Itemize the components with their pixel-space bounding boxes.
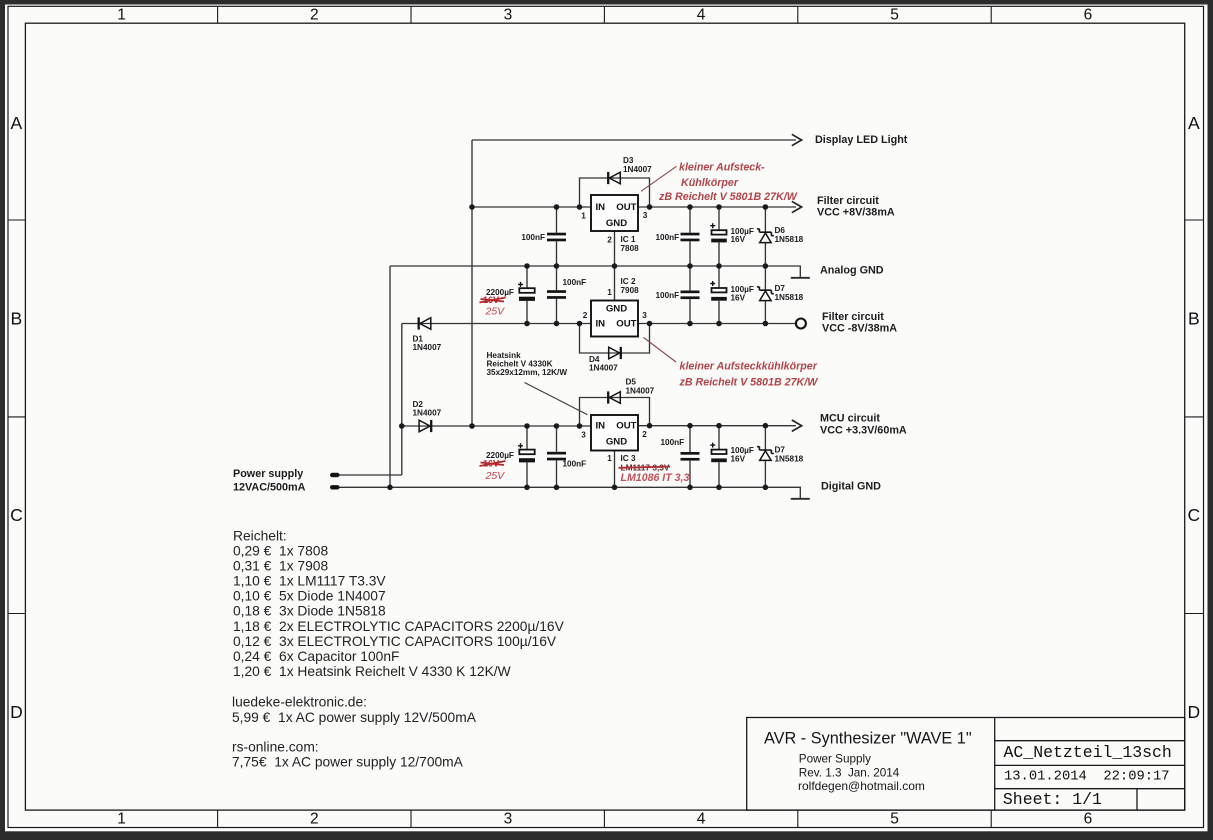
- svg-text:Analog GND: Analog GND: [820, 265, 884, 277]
- svg-text:AVR - Synthesizer "WAVE 1": AVR - Synthesizer "WAVE 1": [764, 730, 972, 748]
- title block frame: [747, 718, 1185, 811]
- svg-text:3: 3: [581, 431, 586, 440]
- svg-text:AC_Netzteil_13sch: AC_Netzteil_13sch: [1004, 743, 1172, 762]
- wire: IC1 IN: [472, 206, 591, 208]
- svg-text:VCC +3.3V/60mA: VCC +3.3V/60mA: [820, 424, 907, 436]
- diode D2 1N4007: [419, 420, 431, 432]
- svg-text:13.01.2014 22:09:17: 13.01.2014 22:09:17: [1004, 770, 1170, 785]
- schottky diode D7 1N5818 (row3): [757, 447, 774, 461]
- svg-text:3: 3: [642, 311, 647, 320]
- svg-text:1: 1: [581, 212, 586, 221]
- diode D5 1N4007: [608, 391, 620, 403]
- svg-text:1,10 € 1x LM1117 T3.3V: 1,10 € 1x LM1117 T3.3V: [233, 574, 386, 589]
- svg-text:D5: D5: [626, 378, 637, 387]
- svg-text:100nF: 100nF: [656, 291, 680, 300]
- regulator IC3 box: [591, 415, 638, 451]
- red note: IC2 heatsink: [679, 361, 819, 389]
- svg-text:0,12 € 3x ELECTROLYTIC CAPACI: 0,12 € 3x ELECTROLYTIC CAPACITORS 100µ/1…: [233, 634, 557, 649]
- arrow: +3.3V output: [792, 420, 802, 431]
- svg-text:GND: GND: [606, 303, 627, 314]
- svg-text:2: 2: [607, 236, 612, 245]
- svg-text:3: 3: [504, 810, 513, 827]
- svg-text:1N4007: 1N4007: [413, 409, 442, 418]
- AC input terminal lower: [330, 485, 340, 489]
- svg-text:3: 3: [643, 211, 648, 220]
- svg-text:16V: 16V: [731, 293, 746, 302]
- svg-text:0,18 € 3x Diode 1N5818: 0,18 € 3x Diode 1N5818: [233, 604, 386, 619]
- wire: ground left vertical: [389, 266, 391, 487]
- wire: digital ground bus: [339, 487, 800, 499]
- capacitor C3 100uF electrolytic: [710, 223, 727, 242]
- svg-text:2: 2: [310, 810, 319, 827]
- wire: D7 row2 stubs: [764, 266, 766, 324]
- capacitor C11 100uF electrolytic: [710, 443, 727, 463]
- wire: C7 100uF stubs: [718, 266, 720, 324]
- svg-text:1N5818: 1N5818: [775, 454, 804, 463]
- old voltage 16V struck (red) row3: [480, 458, 506, 468]
- svg-text:D: D: [1187, 702, 1200, 722]
- wire: D3 bypass loop: [580, 178, 650, 207]
- wire: IC3 OUT rail (+3.3V): [638, 425, 796, 427]
- svg-text:OUT: OUT: [616, 421, 636, 432]
- wire: display LED feed (top rail): [472, 139, 796, 141]
- svg-text:1N5818: 1N5818: [775, 235, 804, 244]
- wire: C3 100uF stubs: [718, 207, 720, 266]
- diode D3 1N4007: [608, 172, 620, 184]
- wire: D5 bypass loop: [580, 398, 650, 427]
- arrow: +8V output: [792, 201, 802, 212]
- svg-text:16V: 16V: [731, 235, 746, 244]
- svg-text:35x29x12mm, 12K/W: 35x29x12mm, 12K/W: [487, 368, 568, 377]
- svg-text:Power supply: Power supply: [233, 468, 303, 480]
- wire: IC1 pin2 to ground: [614, 231, 616, 266]
- svg-text:0,31 € 1x 7908: 0,31 € 1x 7908: [233, 559, 328, 574]
- wire: IC3 pin1 to ground: [614, 451, 616, 488]
- wire: IC1 OUT rail (+8V): [638, 206, 796, 208]
- schottky diode D7 1N5818 (row2): [757, 287, 774, 301]
- svg-text:IN: IN: [596, 318, 606, 329]
- parts list: rs-online: [232, 740, 464, 770]
- svg-text:VCC +8V/38mA: VCC +8V/38mA: [817, 207, 895, 219]
- svg-text:2: 2: [310, 6, 319, 23]
- svg-text:D: D: [10, 702, 23, 722]
- svg-text:GND: GND: [606, 218, 627, 229]
- svg-text:Rev. 1.3 Jan. 2014: Rev. 1.3 Jan. 2014: [799, 767, 900, 780]
- svg-text:100nF: 100nF: [563, 460, 587, 469]
- svg-text:rolfdegen@hotmail.com: rolfdegen@hotmail.com: [798, 779, 925, 793]
- svg-text:1: 1: [117, 810, 126, 827]
- svg-text:IC 2: IC 2: [621, 277, 636, 286]
- op-amp/regulator IC1 7808 box: [591, 195, 638, 231]
- svg-text:1,18 € 2x ELECTROLYTIC CAPACI: 1,18 € 2x ELECTROLYTIC CAPACITORS 2200µ/…: [233, 619, 565, 634]
- svg-text:OUT: OUT: [616, 202, 636, 213]
- svg-text:GND: GND: [606, 436, 627, 447]
- svg-text:C: C: [1187, 505, 1200, 525]
- svg-text:OUT: OUT: [616, 318, 636, 329]
- svg-text:5,99 € 1x AC power supply 12V: 5,99 € 1x AC power supply 12V/500mA: [232, 710, 477, 725]
- ground symbol: Digital GND: [791, 498, 810, 500]
- capacitor C7 100uF electrolytic: [710, 281, 727, 301]
- heatsink callout line: [525, 383, 588, 415]
- svg-text:D7: D7: [775, 284, 786, 293]
- red note: IC1 heatsink: [658, 162, 798, 203]
- svg-text:Reichelt:: Reichelt:: [233, 529, 287, 544]
- capacitor C8 2200uF electrolytic: [518, 443, 535, 462]
- svg-text:B: B: [1188, 309, 1200, 329]
- wire: D2 input wire to IC3 IN: [402, 425, 591, 427]
- svg-text:Filter circuit: Filter circuit: [822, 311, 884, 323]
- wire: C2 100nF stubs: [689, 207, 691, 266]
- wire: C6 100nF stubs: [689, 266, 691, 324]
- old voltage 16V struck (red): [480, 295, 506, 305]
- svg-text:1N4007: 1N4007: [413, 343, 442, 352]
- ground symbol: Analog GND: [791, 277, 810, 279]
- svg-text:Filter circuit: Filter circuit: [817, 195, 879, 207]
- wire: D7 row3 stubs: [764, 426, 766, 488]
- wire: IC2 pin1 to ground: [614, 266, 616, 301]
- svg-text:6: 6: [1084, 6, 1093, 23]
- wire: C11 100uF stubs: [718, 426, 720, 488]
- terminal circle: -8V output: [796, 319, 806, 329]
- svg-text:1N5818: 1N5818: [775, 293, 804, 302]
- junction dots: [387, 204, 768, 490]
- svg-text:B: B: [11, 309, 23, 329]
- svg-text:IC 1: IC 1: [621, 235, 636, 244]
- svg-text:zB Reichelt V 5801B 27K/W: zB Reichelt V 5801B 27K/W: [658, 191, 798, 203]
- svg-text:IN: IN: [596, 202, 606, 213]
- svg-text:2: 2: [642, 430, 647, 439]
- svg-text:0,10 € 5x Diode 1N4007: 0,10 € 5x Diode 1N4007: [233, 589, 386, 604]
- svg-text:25V: 25V: [485, 306, 506, 318]
- svg-text:luedeke-elektronic.de:: luedeke-elektronic.de:: [232, 695, 367, 710]
- svg-text:D7: D7: [775, 446, 786, 455]
- svg-text:zB Reichelt V 5801B 27K/W: zB Reichelt V 5801B 27K/W: [679, 377, 819, 389]
- svg-text:1N4007: 1N4007: [626, 387, 655, 396]
- wire: C5 100nF stubs: [556, 266, 558, 324]
- svg-text:25V: 25V: [485, 470, 506, 482]
- svg-text:0,24 € 6x Capacitor 100nF: 0,24 € 6x Capacitor 100nF: [233, 649, 399, 664]
- svg-text:Sheet: 1/1: Sheet: 1/1: [1003, 790, 1102, 809]
- wire: IC2 OUT rail (-8V): [638, 323, 796, 325]
- svg-text:12VAC/500mA: 12VAC/500mA: [233, 482, 306, 494]
- wire: AC feed vertical: [401, 324, 403, 476]
- svg-text:3: 3: [504, 6, 513, 23]
- svg-text:5: 5: [890, 810, 899, 827]
- svg-text:100nF: 100nF: [563, 278, 587, 287]
- svg-text:100nF: 100nF: [656, 233, 680, 242]
- svg-text:1N4007: 1N4007: [623, 165, 652, 174]
- svg-text:6: 6: [1084, 810, 1093, 827]
- diode D1 1N4007: [419, 317, 431, 329]
- svg-text:1N4007: 1N4007: [589, 364, 618, 373]
- svg-text:100nF: 100nF: [521, 233, 545, 242]
- svg-text:A: A: [11, 113, 23, 133]
- wire: analog ground bus: [390, 266, 800, 278]
- svg-text:100nF: 100nF: [661, 438, 685, 447]
- wire: C10 100nF stubs: [689, 426, 691, 488]
- IC3 old value struck through (red): [619, 462, 671, 472]
- wire: AC input upper: [339, 474, 402, 476]
- svg-text:Display LED Light: Display LED Light: [815, 134, 908, 146]
- diode D4 1N4007: [609, 347, 621, 359]
- capacitor C6 100nF: [681, 291, 700, 300]
- wire: D1 input wire to IC2 IN: [402, 323, 591, 325]
- svg-text:rs-online.com:: rs-online.com:: [232, 740, 319, 755]
- svg-text:kleiner Aufsteck-: kleiner Aufsteck-: [679, 162, 765, 174]
- svg-text:1: 1: [607, 454, 612, 463]
- regulator IC2 7908 box: [591, 301, 638, 337]
- svg-text:Power Supply: Power Supply: [799, 753, 871, 766]
- capacitor C4 2200uF electrolytic: [518, 282, 535, 301]
- parts list: luedeke: [232, 695, 477, 726]
- capacitor C5 100nF: [547, 290, 566, 299]
- svg-text:A: A: [1188, 113, 1200, 133]
- svg-text:LM1086 IT 3,3: LM1086 IT 3,3: [621, 472, 690, 484]
- wire: D4 bypass loop: [580, 324, 650, 354]
- AC input terminal upper: [330, 473, 340, 477]
- capacitor C2 100nF: [681, 233, 700, 242]
- svg-text:C: C: [10, 505, 23, 525]
- capacitor C10 100nF: [681, 452, 700, 461]
- svg-text:D6: D6: [775, 226, 786, 235]
- svg-text:kleiner Aufsteckkühlkörper: kleiner Aufsteckkühlkörper: [680, 361, 818, 373]
- svg-text:MCU circuit: MCU circuit: [820, 413, 880, 425]
- wire: C4 2200uF stubs: [526, 266, 528, 324]
- svg-text:4: 4: [697, 810, 706, 827]
- svg-text:2: 2: [583, 311, 588, 320]
- svg-text:4: 4: [697, 6, 706, 23]
- svg-text:VCC -8V/38mA: VCC -8V/38mA: [822, 323, 897, 335]
- svg-text:1: 1: [117, 6, 126, 23]
- svg-text:7,75€ 1x AC power supply 12/7: 7,75€ 1x AC power supply 12/700mA: [232, 755, 464, 770]
- svg-text:Digital GND: Digital GND: [821, 481, 881, 493]
- wire: D6 stubs: [764, 207, 766, 266]
- parts list: Reichelt: [233, 529, 565, 680]
- svg-text:1,20 € 1x Heatsink Reichelt V: 1,20 € 1x Heatsink Reichelt V 4330 K 12K…: [233, 664, 511, 679]
- wire: C1 100nF stubs: [556, 207, 558, 266]
- svg-text:1: 1: [607, 288, 612, 297]
- annotation pointer line (IC2 heatsink note): [644, 338, 677, 363]
- svg-text:5: 5: [890, 6, 899, 23]
- svg-text:0,29 € 1x 7808: 0,29 € 1x 7808: [233, 544, 328, 559]
- wire: C9 100nF stubs: [556, 426, 558, 487]
- arrow: Display LED Light: [792, 134, 802, 145]
- svg-text:7808: 7808: [621, 244, 640, 253]
- capacitor C9 100nF: [547, 452, 566, 461]
- svg-text:Heatsink: Heatsink: [487, 351, 522, 360]
- annotation pointer line (IC1 heatsink note): [641, 166, 677, 191]
- svg-text:Kühlkörper: Kühlkörper: [681, 177, 739, 189]
- wire: C8 2200uF stubs: [526, 426, 528, 487]
- svg-text:16V: 16V: [731, 455, 746, 464]
- svg-text:D3: D3: [623, 156, 634, 165]
- schottky diode D6 1N5818: [757, 229, 774, 243]
- svg-text:7908: 7908: [621, 286, 640, 295]
- capacitor C1 100nF: [547, 233, 566, 242]
- svg-text:IN: IN: [596, 421, 606, 432]
- wire: rectified DC vertical rail: [471, 140, 473, 426]
